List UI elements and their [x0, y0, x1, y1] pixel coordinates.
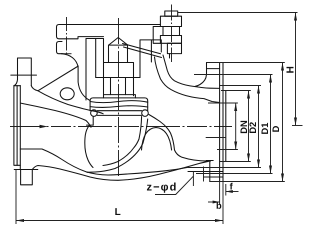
dim ref top: DN	[221, 90, 251, 92]
bolt hole tick	[203, 167, 205, 182]
pipe axis centerline	[10, 126, 232, 128]
right flange front face	[222, 63, 224, 182]
svg-text:H: H	[285, 66, 296, 73]
dim ref top: H	[178, 12, 298, 14]
raised face right	[223, 91, 226, 162]
b dim arrows	[208, 201, 220, 203]
dome rib	[142, 128, 172, 151]
f dim line with arrow	[226, 191, 239, 193]
left bolt tick	[61, 53, 72, 55]
upper inlet wall	[38, 91, 104, 114]
bonnet left leg	[86, 39, 103, 101]
left flange raised face	[13, 86, 15, 165]
seat left wall vertical	[92, 117, 94, 126]
body neck left wall	[62, 54, 90, 101]
z-phi-d leader	[155, 176, 193, 194]
dim ref top: D1	[194, 74, 273, 76]
dim ref bottom: D2	[187, 167, 261, 169]
dim ref top: D	[207, 62, 285, 64]
dim line DN inner	[235, 103, 237, 150]
left bolt centerline	[66, 17, 68, 56]
lug flare arcs	[14, 79, 37, 90]
seat ring top	[97, 110, 141, 112]
dim line D	[282, 63, 284, 182]
bottom boss	[21, 170, 33, 185]
dim line H	[295, 13, 297, 126]
outlet neck upper sweep	[163, 55, 220, 88]
left nut	[57, 42, 63, 54]
right hub left face	[195, 63, 207, 87]
seat right S-curve	[87, 119, 148, 172]
seat ring shoulder	[97, 114, 141, 116]
seat shoulder	[87, 124, 94, 126]
H bottom tick	[292, 125, 303, 127]
left flange top lug	[18, 58, 32, 86]
rib boss ellipse	[60, 88, 74, 100]
DN bottom ref	[217, 149, 238, 151]
flow arrow	[40, 125, 48, 129]
guide sleeve	[104, 39, 134, 96]
bore top line diving	[21, 103, 91, 127]
hub bottom top edge	[206, 160, 213, 162]
left flange back face	[19, 86, 21, 170]
dim ref bottom: D	[210, 181, 285, 183]
DN top ref	[208, 102, 238, 104]
disc left roller	[91, 110, 98, 117]
right flange bottom edge	[210, 181, 223, 183]
b extension	[219, 182, 221, 206]
bottom boss crossing line	[14, 169, 38, 171]
svg-text:D1: D1	[260, 123, 270, 135]
right hub top	[207, 62, 220, 64]
right flange back face	[219, 63, 221, 182]
svg-text:b: b	[216, 201, 222, 211]
right nut lower	[160, 36, 181, 44]
L extension left	[15, 170, 17, 224]
guide chamfer lines	[123, 44, 161, 54]
bonnet right step	[153, 27, 160, 44]
f extension lines	[222, 182, 224, 225]
hub step line	[207, 68, 220, 70]
hub bottom face	[209, 161, 211, 182]
bolt hole edge tick	[192, 172, 194, 187]
right bolt centerline	[171, 5, 173, 63]
right nut upper	[160, 16, 181, 26]
right stud tip	[165, 11, 178, 16]
svg-text:D2: D2	[248, 122, 258, 134]
dim line D2	[258, 86, 260, 168]
dim line DN	[248, 91, 250, 162]
bonnet right leg	[140, 40, 161, 78]
bonnet cover bar	[57, 25, 104, 39]
main vertical centerline	[118, 18, 120, 178]
dim ref top: D2	[219, 85, 261, 87]
svg-text:D: D	[271, 125, 281, 132]
dim line D1	[270, 75, 272, 174]
dim ref bottom: D1	[196, 173, 273, 175]
disc top plate	[104, 95, 136, 98]
stem cone	[109, 38, 128, 46]
L dim line	[16, 220, 223, 222]
disc wavy lines	[90, 101, 148, 103]
outer bottom wall	[32, 161, 208, 180]
outlet neck lower sweep	[155, 57, 220, 103]
bonnet bottom line	[96, 77, 140, 79]
seat inner arc	[103, 117, 142, 166]
left flange front face	[16, 86, 18, 166]
right boss block	[167, 43, 181, 53]
stem lower	[111, 78, 126, 95]
lug crossing line	[11, 74, 37, 76]
svg-text:L: L	[115, 207, 121, 218]
seat left wall	[85, 125, 93, 167]
left flange bottom edge	[14, 164, 20, 166]
rib diagonal	[39, 66, 79, 90]
bore bottom inner wall	[20, 149, 187, 175]
right flange top edge	[220, 62, 223, 64]
left flange top edge	[14, 85, 20, 87]
stem upper	[109, 45, 128, 62]
outlet diagonal upper	[149, 115, 211, 162]
dim ref bottom: DN	[219, 161, 251, 163]
flange mid tick	[206, 137, 226, 139]
outlet neck tick	[169, 54, 171, 59]
bolt hole lines	[188, 171, 223, 173]
right washer	[163, 27, 180, 36]
svg-text:z−φd: z−φd	[146, 181, 177, 193]
disc right roller	[142, 110, 149, 117]
flange bore bottom edge	[220, 149, 223, 151]
disc body	[90, 98, 148, 111]
